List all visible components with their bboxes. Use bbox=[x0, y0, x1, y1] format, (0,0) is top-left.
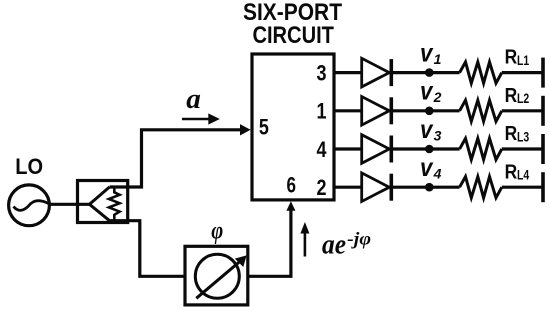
svg-text:5: 5 bbox=[259, 114, 269, 139]
svg-text:L2: L2 bbox=[517, 91, 529, 106]
svg-text:ae: ae bbox=[322, 230, 346, 261]
svg-text:R: R bbox=[505, 160, 518, 183]
svg-text:3: 3 bbox=[317, 61, 327, 86]
svg-text:1: 1 bbox=[434, 51, 442, 67]
svg-text:LO: LO bbox=[15, 154, 43, 179]
svg-text:1: 1 bbox=[317, 99, 327, 124]
svg-text:4: 4 bbox=[433, 166, 442, 182]
svg-text:R: R bbox=[505, 84, 518, 107]
svg-text:3: 3 bbox=[434, 127, 442, 143]
svg-text:L4: L4 bbox=[517, 168, 530, 183]
svg-text:v: v bbox=[420, 114, 434, 144]
svg-text:v: v bbox=[420, 152, 434, 182]
svg-text:a: a bbox=[186, 84, 201, 115]
svg-text:v: v bbox=[420, 38, 434, 68]
svg-text:L1: L1 bbox=[517, 53, 530, 68]
svg-text:L3: L3 bbox=[517, 129, 530, 144]
svg-text:R: R bbox=[505, 122, 518, 145]
svg-text:6: 6 bbox=[286, 172, 296, 197]
svg-text:φ: φ bbox=[211, 218, 223, 245]
svg-text:CIRCUIT: CIRCUIT bbox=[252, 22, 334, 49]
svg-text:2: 2 bbox=[433, 89, 442, 105]
svg-text:2: 2 bbox=[317, 175, 327, 200]
svg-text:-jφ: -jφ bbox=[347, 228, 371, 248]
svg-text:v: v bbox=[420, 76, 434, 106]
svg-text:4: 4 bbox=[317, 137, 328, 162]
svg-text:R: R bbox=[505, 46, 518, 69]
